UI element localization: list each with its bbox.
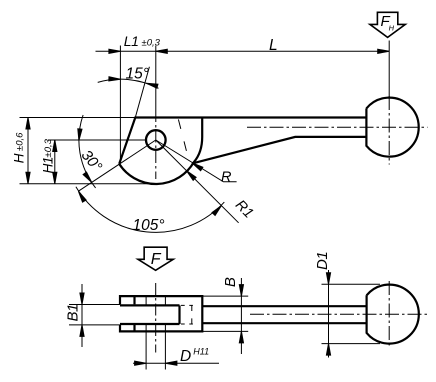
svg-text:L: L <box>269 37 278 54</box>
dimension D1 <box>322 284 381 343</box>
svg-text:15°: 15° <box>126 66 149 83</box>
wire: 15-degree slant extension line <box>135 67 149 118</box>
F load arrow symbol <box>138 247 173 270</box>
lever arm bottom edge <box>192 137 366 164</box>
wire: H top extension line <box>20 117 136 119</box>
dimension 105-degree arc <box>76 187 224 233</box>
svg-text:H: H <box>12 153 27 163</box>
node: hole vertical center line <box>155 110 157 179</box>
ball knob side view <box>366 98 418 157</box>
svg-text:±0,3: ±0,3 <box>142 37 161 48</box>
arm edges plan view <box>202 306 366 323</box>
dimension 30-degree arc <box>79 115 96 188</box>
fork face edge line <box>133 296 135 331</box>
svg-text:105°: 105° <box>132 217 164 234</box>
svg-text:B: B <box>222 277 239 287</box>
dimension H1 <box>54 140 56 184</box>
hidden slot bottom (dashed) side view <box>178 118 188 156</box>
wire: H1 extension line at hole center <box>48 139 146 141</box>
leader R <box>156 140 237 182</box>
fork outer outline <box>120 296 202 331</box>
wire: hub-left vertical extension line (L1 left) <box>119 46 121 164</box>
arm horizontal center line <box>247 126 428 128</box>
FH load arrow symbol <box>370 12 405 37</box>
wire: 30-degree radial line <box>78 140 155 191</box>
hidden slot end vertical (dashed) <box>191 305 193 324</box>
svg-text:D1: D1 <box>314 252 331 270</box>
ball vertical center line plan <box>388 281 390 348</box>
svg-text:H1: H1 <box>40 157 55 173</box>
svg-text:L1: L1 <box>124 33 139 49</box>
svg-text:±0,3: ±0,3 <box>43 138 54 157</box>
svg-text:H: H <box>389 24 395 33</box>
svg-text:D: D <box>180 348 191 365</box>
wire: hole vertical extension line (L1 right) <box>155 46 157 111</box>
wire: L right extension under FH arrow <box>388 41 390 98</box>
dimension B1 <box>69 305 120 325</box>
hole vertical center line plan <box>155 283 157 353</box>
svg-text:30°: 30° <box>78 147 106 175</box>
hole in hub <box>146 130 166 150</box>
svg-text:B1: B1 <box>65 304 82 322</box>
dimension L1/L line <box>96 50 390 52</box>
plan horizontal center line <box>250 313 428 315</box>
ball vertical center line <box>388 96 390 165</box>
dimension 15-degree arc <box>98 79 159 88</box>
hidden slot end (dashed) <box>181 305 193 324</box>
lever body outline (hub + arm top + right edge) <box>119 118 366 185</box>
svg-text:F: F <box>151 251 162 268</box>
dimension B <box>202 296 248 331</box>
dimension H <box>27 118 29 184</box>
ball knob plan view <box>367 285 419 344</box>
svg-text:R: R <box>221 169 232 185</box>
wire: H bottom extension line <box>20 183 157 185</box>
svg-text:R1: R1 <box>232 197 256 221</box>
slot walls <box>120 305 180 324</box>
leader R1 radial line <box>156 140 239 223</box>
dimension D <box>146 296 165 369</box>
svg-text:H11: H11 <box>193 346 209 356</box>
svg-text:±0,6: ±0,6 <box>15 132 26 151</box>
slot end edge <box>178 305 180 324</box>
